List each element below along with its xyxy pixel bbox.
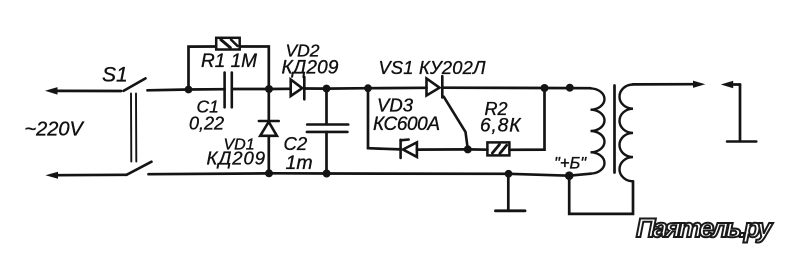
wire: top rail node C to node D <box>327 87 369 90</box>
wire: top rail node E to primary <box>545 87 591 90</box>
transformer T1 secondary winding <box>620 85 634 182</box>
svg-text:КС600А: КС600А <box>373 114 440 135</box>
wire: bottom rail S1 to node H <box>149 172 270 176</box>
switch S1 top pole blade <box>124 78 146 91</box>
wire: R1 branch right riser <box>240 47 269 90</box>
wire: secondary bottom return to node K <box>569 176 633 214</box>
wire: ground drop <box>507 174 510 210</box>
wire: C1 to node B <box>232 88 269 91</box>
wire: C2 to bottom rail <box>325 132 328 174</box>
wire: HV output with arrow <box>633 81 705 88</box>
wire: top rail node A to C1 <box>189 88 225 91</box>
wire: R1 branch left riser <box>189 47 217 90</box>
svg-text:~220V: ~220V <box>25 119 85 141</box>
wire: bottom rail node J to node K <box>509 174 570 176</box>
node C (C2 top) <box>323 85 331 93</box>
wire: top rail node B to VD2 <box>269 87 291 90</box>
wire: VD1 to bottom rail <box>267 136 270 174</box>
node J (ground tap junction) <box>505 170 513 178</box>
wire: node B down to VD1 <box>267 89 270 121</box>
spark gap electrode <box>727 85 756 142</box>
svg-text:R1 1M: R1 1M <box>201 51 257 72</box>
svg-text:0,22: 0,22 <box>189 114 224 134</box>
wire: branch from left riser to VD3 <box>368 148 401 149</box>
wire: top rail node D to VS1 <box>368 86 427 89</box>
ground symbol <box>496 209 526 212</box>
svg-text:1m: 1m <box>286 152 313 174</box>
switch S1 linkage <box>131 94 136 162</box>
thyristor VS1 <box>427 76 468 149</box>
resistor R1 <box>216 38 240 50</box>
node H (VD1 bottom junction) <box>265 169 273 177</box>
svg-text:КД209: КД209 <box>282 58 339 79</box>
resistor R2 <box>487 142 509 155</box>
wire: node G to R2 <box>468 148 488 151</box>
spark gap electrode arrow <box>721 81 740 88</box>
wire: node C down to C2 <box>325 89 328 125</box>
svg-text:VS1 КУ202Л: VS1 КУ202Л <box>379 58 487 78</box>
wire: VD3 to node G <box>417 148 468 151</box>
svg-text:VD3: VD3 <box>377 95 414 116</box>
wire: top rail from S1 to node A <box>148 88 189 92</box>
node E (R2 loop right top) <box>541 84 549 92</box>
svg-text:Паятель.ру: Паятель.ру <box>636 213 774 243</box>
wire: AC input bottom lead arrow <box>45 172 126 179</box>
diode VD2 <box>291 77 305 99</box>
capacitor C1 <box>225 73 232 108</box>
svg-text:6,8К: 6,8К <box>480 115 522 136</box>
svg-text:S1: S1 <box>102 63 128 86</box>
node A (junction R1/C1 left) <box>185 86 193 94</box>
transformer T1 core <box>613 86 616 173</box>
node F (top rail near transformer) <box>566 84 574 92</box>
node I (C2 bottom junction) <box>323 170 331 178</box>
wire: AC input top lead arrow <box>45 87 121 95</box>
svg-text:C2: C2 <box>284 133 308 154</box>
capacitor C2 <box>307 125 348 132</box>
svg-text:КД209: КД209 <box>207 148 266 169</box>
wire: bottom rail node I to node J <box>327 172 509 175</box>
zener diode VD3 <box>401 140 417 158</box>
transformer T1 primary winding <box>591 88 605 173</box>
node B (junction C1/VD1/VD2) <box>265 85 273 93</box>
node D (VS1 loop left top) <box>364 84 372 92</box>
diode VD1 <box>259 121 279 136</box>
wire: bottom rail node K to primary bottom <box>569 174 590 176</box>
wire: R2 to right riser up to node E <box>509 88 544 150</box>
node G (gate junction) <box>464 145 472 153</box>
switch S1 bottom pole blade <box>127 162 152 175</box>
svg-text:"+Б": "+Б" <box>554 155 587 173</box>
node K (+B junction) <box>565 171 574 180</box>
wire: bottom rail node H to node I <box>269 172 327 175</box>
wire: VS1 cathode to node E <box>442 86 544 89</box>
wire: left riser of VD3/R2 branch <box>367 88 370 148</box>
wire: VD2 to node C <box>304 87 326 90</box>
